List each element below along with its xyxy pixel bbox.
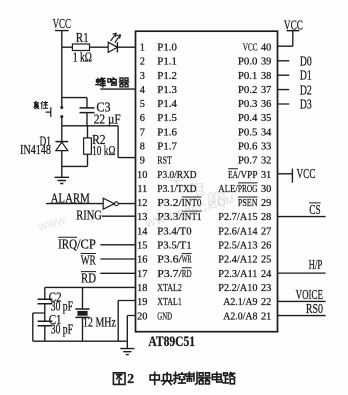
svg-text:36: 36 xyxy=(261,99,271,110)
svg-text:P0.3: P0.3 xyxy=(238,98,258,110)
svg-text:33: 33 xyxy=(261,142,271,153)
svg-text:P0.2: P0.2 xyxy=(238,84,258,96)
svg-text:AT89C51: AT89C51 xyxy=(148,334,195,350)
svg-text:12 MHz: 12 MHz xyxy=(83,315,116,330)
svg-text:29: 29 xyxy=(261,198,271,209)
svg-text:38: 38 xyxy=(261,71,271,82)
svg-text:/VPP: /VPP xyxy=(238,169,258,181)
svg-text:P1.3: P1.3 xyxy=(157,84,177,96)
svg-text:VCC: VCC xyxy=(297,166,316,181)
svg-text:P2.2/A10: P2.2/A10 xyxy=(218,282,258,294)
svg-text:PROG: PROG xyxy=(238,183,258,195)
svg-text:22: 22 xyxy=(261,297,271,308)
svg-text:VOICE: VOICE xyxy=(296,287,323,302)
svg-text:P3.0/RXD: P3.0/RXD xyxy=(157,169,196,181)
svg-text:27: 27 xyxy=(261,226,271,237)
svg-text:30: 30 xyxy=(261,184,271,195)
svg-text:/CP: /CP xyxy=(77,236,96,251)
svg-text:P3.6/: P3.6/ xyxy=(157,254,182,266)
svg-text:VCC: VCC xyxy=(53,16,72,31)
svg-text:PSEN: PSEN xyxy=(238,197,258,209)
svg-text:P3.4/T0: P3.4/T0 xyxy=(157,225,192,237)
svg-text:VCC: VCC xyxy=(243,42,258,54)
svg-text:P0.6: P0.6 xyxy=(238,141,258,153)
svg-text:RD: RD xyxy=(81,271,96,286)
svg-text:30 pF: 30 pF xyxy=(51,322,73,337)
svg-text:P3.7/: P3.7/ xyxy=(157,268,182,280)
svg-text:21: 21 xyxy=(261,311,271,322)
svg-text:25: 25 xyxy=(261,255,271,266)
svg-text:4: 4 xyxy=(140,85,145,96)
svg-text:D0: D0 xyxy=(300,53,312,68)
svg-text:5: 5 xyxy=(140,99,145,110)
svg-text:24: 24 xyxy=(261,269,271,280)
svg-text:18: 18 xyxy=(137,283,147,294)
svg-text:VCC: VCC xyxy=(284,18,303,33)
svg-text:P1.5: P1.5 xyxy=(157,112,177,124)
svg-text:R1: R1 xyxy=(76,30,89,45)
svg-text:WR: WR xyxy=(81,253,96,268)
svg-text:P3.1/TXD: P3.1/TXD xyxy=(157,183,196,195)
svg-text:ALE/: ALE/ xyxy=(218,183,238,195)
svg-text:RS0: RS0 xyxy=(306,301,323,316)
svg-text:10: 10 xyxy=(137,170,147,181)
svg-text:31: 31 xyxy=(261,170,271,181)
svg-text:16: 16 xyxy=(137,255,147,266)
svg-text:XTAL1: XTAL1 xyxy=(157,296,182,308)
svg-text:A2.0/A8: A2.0/A8 xyxy=(223,310,258,322)
svg-text:XTAL2: XTAL2 xyxy=(157,282,182,294)
svg-text:P2.6/A14: P2.6/A14 xyxy=(218,225,258,237)
svg-text:1: 1 xyxy=(140,43,145,54)
svg-text:P3.2/: P3.2/ xyxy=(157,197,182,209)
svg-text:17: 17 xyxy=(137,269,147,280)
svg-text:EA: EA xyxy=(228,169,238,181)
svg-text:P0.4: P0.4 xyxy=(238,112,258,124)
svg-text:39: 39 xyxy=(261,57,271,68)
svg-text:P2.4/A12: P2.4/A12 xyxy=(218,254,257,266)
svg-text:28: 28 xyxy=(261,212,271,223)
svg-text:40: 40 xyxy=(261,43,271,54)
svg-text:20: 20 xyxy=(137,311,147,322)
svg-text:P0.1: P0.1 xyxy=(238,70,258,82)
svg-text:IRQ: IRQ xyxy=(58,236,77,251)
svg-text:RING: RING xyxy=(76,208,102,223)
svg-text:34: 34 xyxy=(261,127,271,138)
svg-text:22 µF: 22 µF xyxy=(94,111,121,126)
svg-text:8: 8 xyxy=(140,142,145,153)
svg-text:D2: D2 xyxy=(300,82,312,97)
svg-text:RD: RD xyxy=(182,268,192,280)
svg-text:3: 3 xyxy=(140,71,145,82)
svg-text:12: 12 xyxy=(137,198,147,209)
svg-text:ALARM: ALARM xyxy=(51,190,90,205)
svg-text:9: 9 xyxy=(140,156,145,167)
svg-text:11: 11 xyxy=(137,184,147,195)
svg-text:P2.5/A13: P2.5/A13 xyxy=(218,240,258,252)
svg-text:P1.6: P1.6 xyxy=(157,126,177,138)
svg-text:P1.1: P1.1 xyxy=(157,56,177,68)
svg-text:P2.3/A11: P2.3/A11 xyxy=(218,268,257,280)
svg-text:P1.4: P1.4 xyxy=(157,98,177,110)
svg-text:IN4148: IN4148 xyxy=(20,142,51,157)
svg-text:26: 26 xyxy=(261,241,271,252)
svg-text:2: 2 xyxy=(127,371,134,386)
svg-text:32: 32 xyxy=(261,156,271,167)
svg-text:H/P: H/P xyxy=(309,257,323,272)
svg-text:P1.7: P1.7 xyxy=(157,141,177,153)
svg-text:2: 2 xyxy=(140,57,145,68)
svg-text:10 kΩ: 10 kΩ xyxy=(92,143,115,158)
svg-text:23: 23 xyxy=(261,283,271,294)
svg-text:CS: CS xyxy=(309,202,320,217)
svg-text:37: 37 xyxy=(261,85,271,96)
svg-text:D3: D3 xyxy=(300,97,312,112)
svg-text:P0.0: P0.0 xyxy=(238,56,258,68)
svg-text:P1.2: P1.2 xyxy=(157,70,177,82)
svg-text:P0.7: P0.7 xyxy=(238,155,258,167)
svg-text:GND: GND xyxy=(157,310,172,322)
svg-text:P3.5/T1: P3.5/T1 xyxy=(157,240,191,252)
svg-text:WR: WR xyxy=(182,254,192,266)
svg-text:6: 6 xyxy=(140,113,145,124)
svg-text:P1.0: P1.0 xyxy=(157,42,177,54)
svg-text:15: 15 xyxy=(137,241,147,252)
svg-text:P0.5: P0.5 xyxy=(238,126,258,138)
svg-text:RST: RST xyxy=(157,155,172,167)
svg-text:P2.7/A15: P2.7/A15 xyxy=(218,211,258,223)
svg-text:7: 7 xyxy=(140,127,145,138)
svg-text:35: 35 xyxy=(261,113,271,124)
svg-text:D1: D1 xyxy=(300,68,312,83)
svg-text:1 kΩ: 1 kΩ xyxy=(73,50,92,65)
svg-text:A2.1/A9: A2.1/A9 xyxy=(223,296,258,308)
svg-text:19: 19 xyxy=(137,297,147,308)
